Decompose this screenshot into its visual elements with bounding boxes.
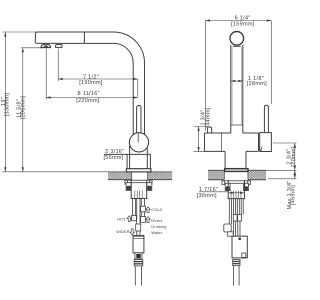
svg-text:7 1/2": 7 1/2" xyxy=(83,75,99,81)
svg-text:1 7/16": 1 7/16" xyxy=(199,187,218,193)
svg-text:[36mm]: [36mm] xyxy=(197,193,217,199)
svg-text:[70mm]: [70mm] xyxy=(291,146,297,166)
svg-text:Water: Water xyxy=(151,231,162,235)
svg-text:[159mm]: [159mm] xyxy=(231,22,255,28)
svg-text:2 3/16": 2 3/16" xyxy=(105,149,124,155)
svg-text:[190mm]: [190mm] xyxy=(79,80,103,86)
svg-text:[220mm]: [220mm] xyxy=(76,98,100,104)
svg-text:[44mm]: [44mm] xyxy=(206,107,212,127)
svg-text:8 11/16": 8 11/16" xyxy=(78,91,100,97)
svg-text:[56mm]: [56mm] xyxy=(103,155,123,161)
svg-text:6 1/4": 6 1/4" xyxy=(235,15,251,21)
svg-text:Direct: Direct xyxy=(151,219,163,223)
svg-text:[46mm]: [46mm] xyxy=(290,185,296,205)
svg-text:[330mm]: [330mm] xyxy=(5,93,11,117)
svg-text:Drinking: Drinking xyxy=(151,225,166,229)
svg-text:[28mm]: [28mm] xyxy=(247,81,267,87)
svg-text:HOT: HOT xyxy=(117,218,126,222)
svg-text:[296mm]: [296mm] xyxy=(20,96,26,120)
svg-text:WIDER: WIDER xyxy=(116,230,130,234)
svg-text:COLD: COLD xyxy=(151,208,162,212)
